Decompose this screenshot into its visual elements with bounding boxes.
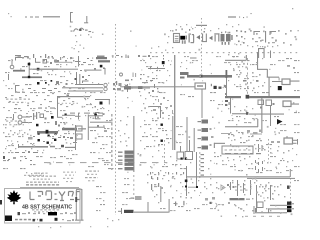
diode D1 xyxy=(196,35,200,40)
wire xyxy=(187,117,188,151)
node fill7 xyxy=(139,89,167,114)
node L xyxy=(127,97,129,117)
node Q xyxy=(238,72,264,89)
wire xyxy=(29,68,58,71)
capacitor C2 xyxy=(258,48,271,58)
note xyxy=(29,176,56,177)
bus xyxy=(37,130,58,134)
node I xyxy=(45,80,52,85)
node fill3 xyxy=(3,106,56,114)
wire xyxy=(58,103,78,104)
connector J1 xyxy=(70,12,73,23)
junction xyxy=(51,116,60,127)
wire xyxy=(25,16,60,17)
node K xyxy=(144,80,152,94)
crystal Y1 xyxy=(71,28,94,33)
node fill11 xyxy=(228,106,279,149)
connector J9 xyxy=(199,152,204,178)
junction xyxy=(185,166,188,196)
node AK xyxy=(240,174,274,199)
IC U4 xyxy=(95,99,111,108)
node fill13 xyxy=(228,148,297,169)
connector J6 xyxy=(283,101,299,107)
node E2 xyxy=(247,45,278,47)
node M xyxy=(83,58,93,63)
node btm xyxy=(38,226,108,228)
logo xyxy=(5,216,12,222)
wire xyxy=(160,186,161,202)
wire xyxy=(8,13,12,17)
node fill1 xyxy=(47,62,76,75)
wire xyxy=(127,84,128,92)
wire xyxy=(232,112,284,115)
resistor R1 xyxy=(15,54,53,58)
svg-text:4B SST SCHEMATIC: 4B SST SCHEMATIC xyxy=(22,204,72,210)
wire xyxy=(33,69,78,70)
junction xyxy=(37,82,57,91)
wire xyxy=(20,187,79,188)
wire xyxy=(214,143,225,148)
capacitor C7 xyxy=(189,34,195,44)
wire xyxy=(15,151,38,153)
diode D2 xyxy=(209,36,213,41)
transistor Q1 xyxy=(202,31,207,42)
note xyxy=(26,182,59,183)
node AJ xyxy=(172,196,215,205)
inductor L4 xyxy=(104,83,107,90)
node S xyxy=(228,130,261,142)
wire xyxy=(201,18,202,74)
wire xyxy=(150,52,297,53)
transistor Q2 xyxy=(227,182,235,190)
wire xyxy=(111,114,112,170)
wire xyxy=(88,114,103,141)
node Z xyxy=(24,172,44,176)
wire xyxy=(80,68,102,71)
wire xyxy=(22,76,42,78)
node AA xyxy=(97,125,107,132)
IC U8 xyxy=(177,140,193,160)
wire xyxy=(261,98,262,133)
wire xyxy=(148,202,149,212)
wire xyxy=(270,105,271,126)
wire xyxy=(254,206,255,214)
node P2 xyxy=(158,97,173,116)
wire xyxy=(196,152,197,186)
node AQ xyxy=(151,183,196,190)
label row3 xyxy=(5,121,26,126)
node U xyxy=(227,156,250,160)
node B xyxy=(172,28,190,31)
node AO xyxy=(174,201,231,208)
wire xyxy=(18,144,75,148)
junction xyxy=(277,119,283,125)
wire xyxy=(221,133,230,134)
wire xyxy=(196,25,207,26)
note xyxy=(0,200,2,205)
node fill8 xyxy=(145,58,193,81)
IC U7 xyxy=(75,125,82,150)
bus xyxy=(225,95,300,99)
capacitor C1 xyxy=(215,33,220,42)
logo xyxy=(46,191,58,200)
wire xyxy=(225,100,230,106)
wire xyxy=(255,208,287,213)
wire xyxy=(115,24,116,215)
wire xyxy=(164,140,165,165)
wire xyxy=(97,55,129,59)
wire xyxy=(269,77,280,97)
connector J2 xyxy=(84,16,88,23)
note xyxy=(18,212,77,215)
wire xyxy=(120,85,195,89)
wire xyxy=(75,56,81,67)
node T xyxy=(264,149,290,154)
wire xyxy=(225,119,258,127)
node AP xyxy=(150,172,184,177)
logo xyxy=(7,190,21,204)
label row2 xyxy=(58,80,76,107)
capacitor C6 xyxy=(251,160,289,172)
capacitor C5 xyxy=(33,112,37,120)
node AN xyxy=(147,173,159,195)
node P xyxy=(150,80,161,93)
wire xyxy=(190,58,197,59)
node Y xyxy=(3,156,32,161)
node fill15 xyxy=(154,178,225,203)
junction xyxy=(161,124,163,142)
connector J10 xyxy=(198,120,214,150)
wire xyxy=(13,70,25,72)
node AL xyxy=(235,205,281,217)
wire xyxy=(15,57,23,61)
node AE xyxy=(258,141,280,152)
wire xyxy=(148,106,161,118)
resistor R2 xyxy=(113,81,124,92)
wire xyxy=(35,58,41,63)
connector J7 xyxy=(284,136,293,144)
wire xyxy=(225,70,227,95)
bus xyxy=(187,75,232,78)
wire xyxy=(148,67,165,70)
node AD xyxy=(208,152,223,169)
junction xyxy=(100,65,105,69)
flip-flop U12 xyxy=(254,31,277,43)
label TITLE xyxy=(22,204,72,210)
node AM xyxy=(232,182,281,211)
wire xyxy=(230,97,231,114)
wire xyxy=(70,113,103,114)
node fill14 xyxy=(232,180,285,213)
node fill5 xyxy=(3,119,43,153)
wire xyxy=(88,127,105,128)
node V xyxy=(40,114,47,120)
node fill9 xyxy=(167,24,245,45)
IC U1 xyxy=(174,34,180,43)
wire xyxy=(44,162,166,163)
note xyxy=(26,184,59,185)
wire xyxy=(75,113,81,120)
IC U11 xyxy=(247,130,262,135)
connector J11 xyxy=(287,202,294,213)
node topr xyxy=(228,53,245,58)
note xyxy=(34,173,48,174)
wire xyxy=(257,52,272,78)
wire xyxy=(270,205,287,206)
table frame xyxy=(5,189,81,224)
wire xyxy=(225,153,261,154)
inductor L1 xyxy=(10,59,14,69)
junction xyxy=(278,86,282,90)
logo xyxy=(30,192,43,200)
wire xyxy=(268,208,287,213)
logo xyxy=(59,192,65,202)
wire xyxy=(134,199,170,213)
bus xyxy=(230,198,251,200)
wire xyxy=(75,189,84,221)
node AH xyxy=(196,184,290,190)
resistor R6 xyxy=(180,72,189,79)
note xyxy=(63,172,76,183)
wire xyxy=(247,58,248,94)
corner xyxy=(57,96,63,118)
transistor Q3 xyxy=(235,180,251,196)
node W xyxy=(3,127,30,135)
relay K1 xyxy=(118,198,134,215)
wire xyxy=(38,108,55,109)
label row1 xyxy=(6,99,30,103)
node fill6 xyxy=(84,92,109,118)
node fill2 xyxy=(5,91,61,106)
node A xyxy=(74,34,92,52)
node fill4 xyxy=(55,118,74,144)
node N xyxy=(120,73,137,78)
wire xyxy=(55,62,72,63)
node AI xyxy=(103,200,119,221)
node G xyxy=(62,57,93,59)
wire xyxy=(62,115,75,116)
note xyxy=(15,218,74,222)
IC U3 xyxy=(221,31,233,45)
resistor R4 xyxy=(96,57,110,62)
node R xyxy=(287,65,295,69)
node AC xyxy=(150,118,169,146)
node AB xyxy=(118,120,129,146)
wire xyxy=(82,81,89,84)
note xyxy=(33,179,50,180)
node AF xyxy=(292,139,298,145)
wire xyxy=(247,178,295,179)
wire xyxy=(270,185,271,200)
wire xyxy=(68,91,103,92)
wire xyxy=(186,176,290,177)
node fill12 xyxy=(140,118,191,167)
noise xyxy=(6,26,297,217)
wire xyxy=(225,55,247,61)
wire xyxy=(174,55,175,150)
node X xyxy=(28,136,77,144)
resistor R5 xyxy=(162,55,165,69)
inductor L3 xyxy=(18,121,32,125)
bus xyxy=(62,128,86,131)
node J xyxy=(56,81,69,97)
junction xyxy=(36,114,67,137)
IC U6 xyxy=(258,100,275,109)
wire xyxy=(290,178,291,202)
logo xyxy=(77,192,81,200)
IC U10 xyxy=(257,202,263,208)
wire xyxy=(256,185,257,212)
wire xyxy=(245,216,280,217)
wire xyxy=(172,116,173,150)
connector J8 xyxy=(118,151,134,171)
IC U5 xyxy=(195,83,206,89)
wire xyxy=(22,88,36,93)
wire xyxy=(226,78,227,97)
wire xyxy=(133,175,141,200)
inductor L2 xyxy=(13,114,30,120)
wire xyxy=(194,128,195,152)
note xyxy=(3,56,300,211)
wire xyxy=(75,84,103,85)
wire xyxy=(268,139,269,162)
wire xyxy=(3,74,9,86)
IC U2 xyxy=(180,36,187,44)
capacitor C3 xyxy=(43,60,59,65)
wire xyxy=(75,190,77,220)
node AG xyxy=(151,170,181,180)
wire xyxy=(90,122,113,123)
wire xyxy=(228,13,252,18)
logo xyxy=(69,192,75,200)
wire xyxy=(62,87,103,88)
node E xyxy=(250,30,296,46)
wire xyxy=(92,76,149,84)
note xyxy=(32,209,59,212)
IC U9 xyxy=(222,146,253,154)
wire xyxy=(105,68,106,75)
connector J4 xyxy=(95,112,105,119)
connector J3 xyxy=(15,85,20,93)
node toprow xyxy=(22,56,75,63)
resistor R3 xyxy=(124,86,150,90)
wire xyxy=(133,116,134,172)
note xyxy=(85,171,99,182)
connector J5 xyxy=(272,79,300,85)
node D xyxy=(236,30,246,44)
wire xyxy=(202,89,203,118)
node O xyxy=(138,55,150,57)
node H xyxy=(44,56,54,61)
wire xyxy=(290,169,291,177)
node F xyxy=(151,8,299,51)
node fill10 xyxy=(228,58,271,91)
junction xyxy=(211,84,225,89)
wire xyxy=(57,96,90,97)
capacitor C4 xyxy=(75,72,91,84)
junction xyxy=(28,62,31,78)
